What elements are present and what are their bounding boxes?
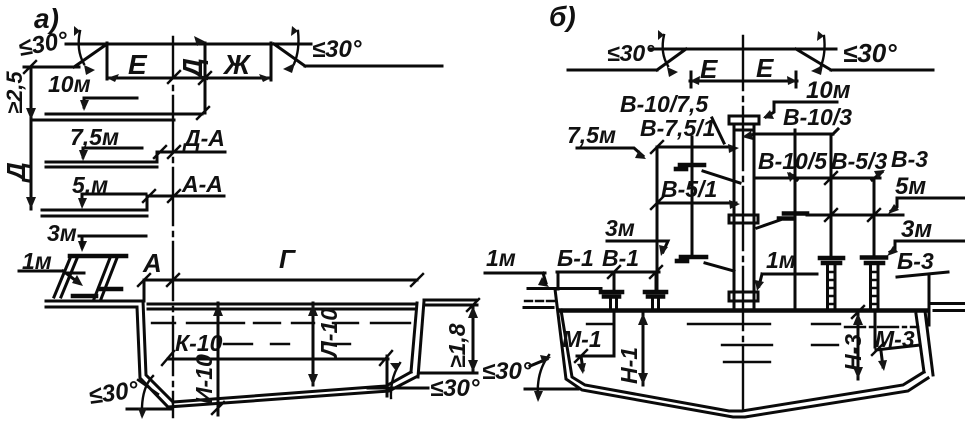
platform mid step: [677, 259, 687, 264]
arrow V-10/3: [742, 131, 753, 140]
arrow at 2.5 bottom: [26, 108, 36, 120]
pipe1 shaft: [611, 298, 617, 311]
dim 1.8 bottom arrow: [468, 360, 478, 372]
svg-text:1м: 1м: [766, 247, 796, 273]
platform mid leader: [705, 263, 734, 271]
leader 7.5m: [577, 148, 643, 156]
left dim vertical: [30, 67, 33, 209]
level line 10m upper: [46, 113, 202, 116]
chute lower platform 1: [101, 287, 121, 292]
svg-text:Ж: Ж: [222, 49, 252, 80]
svg-text:7,5м: 7,5м: [70, 124, 119, 150]
right ground: [831, 69, 933, 72]
left ground line: [24, 66, 79, 69]
angle bottom-left baseline: [127, 408, 171, 411]
svg-text:≥2,5: ≥2,5: [2, 71, 27, 114]
svg-text:В-10/7,5: В-10/7,5: [620, 91, 709, 117]
svg-text:В-10/3: В-10/3: [783, 104, 852, 130]
arc right top arrow: [817, 31, 824, 41]
vertical x874: [873, 178, 876, 255]
centerline axis B: [742, 36, 744, 410]
level line 7.5 lower: [46, 166, 157, 169]
leader 3m left: [607, 241, 668, 252]
N-3 top tick: [852, 306, 864, 318]
dash row 3: [724, 361, 770, 363]
platform right leader: [757, 220, 780, 228]
svg-text:≤30°: ≤30°: [843, 38, 897, 68]
M-1 tick: [575, 350, 587, 362]
pipe2 shaft: [653, 298, 659, 311]
leader 7.5m: [83, 148, 142, 157]
pipe3 cap bottom: [823, 261, 840, 266]
svg-text:А: А: [142, 248, 162, 278]
dash-dot through M-3: [845, 326, 918, 328]
L-10 bottom arrow: [308, 374, 318, 386]
chute lower platform 2: [73, 294, 96, 299]
angle arc left: [79, 31, 84, 64]
K-10 line: [168, 358, 388, 361]
leader slash V-10/7.5: [712, 118, 724, 143]
arrow 7.5m: [79, 150, 88, 161]
leader B-3: [897, 272, 948, 277]
svg-text:Б-1: Б-1: [557, 245, 594, 271]
leader 3m right: [890, 241, 965, 252]
ground line left upper: [46, 300, 143, 303]
chute left diagonal outer: [54, 256, 71, 297]
svg-text:≤30°: ≤30°: [482, 358, 532, 385]
platform mid on axis line: [681, 255, 706, 260]
angle arc left: [663, 35, 668, 66]
leader 1m left: [485, 272, 545, 275]
G tick center: [167, 274, 179, 286]
angle arc right: [294, 31, 299, 64]
right berm top upper: [424, 299, 477, 302]
L-10 top arrow: [308, 304, 318, 316]
svg-text:Д: Д: [1, 162, 31, 183]
arrow to V-10/5: [790, 174, 797, 180]
N-1 bottom arrow: [638, 373, 648, 385]
svg-text:1м: 1м: [486, 245, 516, 271]
level line 5 lower: [42, 215, 147, 218]
column cap: [729, 116, 759, 124]
I-10 vertical: [217, 303, 220, 415]
svg-text:≤30°: ≤30°: [607, 40, 655, 66]
leader 5m: [82, 194, 146, 204]
berm top line: [66, 43, 311, 46]
ground line left lower: [46, 306, 137, 309]
pipe3 shaft hatch: [828, 272, 835, 304]
svg-text:5.м: 5.м: [72, 172, 108, 198]
svg-text:Д-А: Д-А: [182, 125, 225, 151]
svg-text:А-А: А-А: [181, 171, 223, 197]
pipe4 axis extension: [874, 311, 877, 347]
dim 1.8 top arrow: [468, 306, 478, 318]
svg-text:7,5м: 7,5м: [567, 122, 616, 148]
left ground ledge: [528, 287, 601, 290]
svg-text:И-10: И-10: [191, 354, 217, 404]
V-10/3 hook: [833, 129, 838, 134]
step 5: [146, 196, 149, 210]
tick D-A center: [168, 146, 180, 158]
tick 5m at x831: [825, 209, 837, 221]
vertical x795: [794, 130, 797, 309]
arrow 3m right: [887, 246, 898, 256]
svg-text:Е: Е: [128, 49, 148, 80]
tick V-5/1 left: [651, 197, 663, 209]
K-10 tick left: [162, 351, 174, 365]
angle bottom-right arrow: [390, 363, 400, 371]
arc left top arrow: [74, 26, 80, 36]
left ground lower: [524, 306, 553, 309]
tick at pipe1: [608, 266, 620, 278]
tick at 10m line right: [197, 107, 209, 119]
pipe2 cap bottom: [648, 294, 663, 299]
G tick left: [138, 274, 150, 286]
left ground dashed: [525, 300, 554, 302]
M-3 arrow stem: [881, 351, 883, 367]
pipe2 cap top: [645, 290, 666, 295]
dim tick center: [168, 71, 180, 83]
E arrow right: [787, 76, 797, 85]
right berm upper: [931, 302, 965, 305]
svg-text:Н-3: Н-3: [840, 334, 866, 371]
arc left top arrow: [658, 30, 664, 40]
svg-text:3м: 3м: [605, 215, 635, 241]
arc left bottom arrow: [667, 67, 678, 77]
line D-A: [157, 151, 225, 154]
basin rim thick: [560, 308, 927, 313]
svg-text:≥1,8: ≥1,8: [444, 323, 470, 368]
vertical x831: [830, 134, 833, 256]
leader 10m: [766, 102, 837, 117]
dash row 1: [152, 322, 410, 324]
svg-text:5м: 5м: [895, 173, 926, 200]
svg-text:3м: 3м: [47, 220, 77, 246]
basin right wall outer: [925, 311, 933, 375]
svg-text:≤30°: ≤30°: [430, 375, 480, 402]
tick ground left: [24, 61, 36, 73]
pipe4 cap bottom: [866, 261, 883, 266]
svg-text:В-3: В-3: [891, 146, 928, 172]
pipe4 cap top: [862, 255, 886, 260]
dim arrow left: [107, 74, 119, 82]
tick at pipe2: [650, 266, 662, 278]
column shaft left: [733, 124, 736, 309]
basin left wall outer: [137, 307, 168, 407]
water line upper: [148, 303, 414, 306]
angle bottom-left tick: [138, 380, 158, 394]
leader V-10/3: [747, 134, 833, 136]
arc right bottom arrow: [811, 65, 823, 75]
tick A-A center: [168, 190, 180, 202]
angle bottom-right arc: [391, 363, 400, 398]
arrow 1m mid: [755, 280, 764, 291]
dash row 2: [224, 343, 350, 345]
svg-text:Г: Г: [279, 244, 296, 274]
chute right diagonal inner: [101, 258, 117, 299]
dim tick at 205: [199, 72, 211, 84]
svg-text:10м: 10м: [48, 71, 91, 97]
I-10 top arrow: [213, 304, 223, 316]
pipe4 shaft hatch: [871, 272, 878, 304]
leader 1m diag: [543, 273, 546, 283]
N-3 top arrow: [853, 313, 863, 325]
basin left wall outer: [555, 289, 928, 417]
arrow 10m: [763, 110, 774, 119]
E tick left: [690, 72, 693, 87]
tick D right: [204, 43, 207, 113]
line A-A: [147, 195, 224, 198]
right slope: [274, 44, 305, 66]
tick line10/5: [825, 172, 837, 184]
dash row 1: [587, 323, 840, 325]
svg-text:В-10/5: В-10/5: [758, 148, 828, 174]
arrow 1m left: [538, 277, 549, 287]
right berm top lower: [424, 304, 477, 307]
svg-text:В-5/1: В-5/1: [661, 176, 717, 202]
arc right top arrow: [291, 26, 298, 36]
level line 7.5 upper: [46, 161, 157, 164]
basin left wall inner: [143, 301, 173, 402]
angle bottom-left arc: [538, 355, 549, 398]
tick left end vertical: [557, 272, 560, 289]
angle bottom-right baseline: [368, 387, 428, 390]
basin right wall outer: [418, 301, 424, 377]
right slope: [796, 49, 831, 70]
arrow 5m: [888, 204, 899, 214]
arrow 10m down: [80, 100, 89, 111]
pipe2 axis upper: [655, 272, 658, 290]
tick Zh right: [270, 43, 273, 80]
pipe4 shaft: [871, 265, 879, 309]
E tick right: [795, 72, 798, 87]
line 5m level: [807, 214, 903, 217]
N-3 vertical: [857, 312, 860, 379]
svg-text:В-5/3: В-5/3: [831, 148, 887, 174]
tick 5m at x874: [868, 209, 880, 221]
column shaft right: [753, 124, 756, 309]
line V-5/1: [657, 202, 736, 205]
angle arc right: [821, 36, 825, 66]
leader 1m mid: [759, 274, 817, 286]
arrow at D bottom: [26, 197, 36, 209]
angle arc bottom arrow: [534, 391, 543, 402]
svg-text:Е: Е: [756, 53, 774, 83]
L-10 vertical: [312, 303, 315, 385]
left ground: [568, 69, 657, 72]
arc left bottom arrow: [84, 65, 95, 75]
arrow 1m: [72, 275, 83, 286]
chute left diagonal inner: [61, 256, 78, 297]
water line lower: [148, 308, 414, 311]
right ground lower line: [421, 372, 477, 375]
svg-text:1м: 1м: [22, 248, 52, 274]
right ground line: [305, 65, 442, 68]
left slope: [657, 49, 686, 70]
svg-text:Л-10: Л-10: [316, 308, 342, 359]
line level 10/5: [754, 177, 880, 180]
leader 3m: [79, 235, 146, 238]
pipe1 axis upper: [613, 272, 616, 290]
M-3 bracket: [876, 345, 920, 350]
left slope: [74, 44, 107, 67]
basin bottom inner: [173, 372, 411, 402]
step 7.5: [156, 152, 159, 162]
tick A-A left: [143, 190, 155, 202]
dim line E-D-Zh: [107, 77, 271, 80]
column mid flange: [729, 215, 758, 223]
tick E left: [106, 43, 109, 79]
basin left wall inner: [561, 310, 924, 411]
angle bottom-left arc: [142, 376, 153, 415]
chute mid step: [64, 272, 84, 275]
leader 10m: [84, 98, 137, 107]
I-10 bottom tick: [212, 402, 224, 414]
column collar: [734, 129, 754, 132]
arrow 3m: [78, 241, 87, 252]
arrow to V-3: [872, 172, 882, 180]
angle arc top arrow: [530, 359, 547, 366]
angle bottom-left baseline: [525, 388, 578, 391]
tick D-A left: [154, 146, 166, 158]
dash row 2: [722, 344, 838, 346]
level line 10m lower: [31, 119, 174, 122]
angle bottom-right vertical tick: [386, 356, 389, 396]
arrow on top line: [194, 36, 206, 46]
svg-text:≤30°: ≤30°: [312, 36, 362, 63]
basin right wall inner: [916, 314, 924, 372]
berm top line: [650, 48, 836, 51]
arc right bottom arrow: [283, 63, 295, 73]
centerline axis A: [172, 37, 174, 417]
M-1 bracket: [577, 311, 614, 356]
arrow 7.5m: [635, 150, 646, 159]
column bottom flange: [729, 292, 758, 301]
vertical left dim: [656, 147, 659, 290]
angle bottom-left arrow: [138, 408, 147, 419]
platform upper leader: [703, 171, 740, 183]
label line B1-V1: [557, 271, 659, 274]
pipe1 cap top: [601, 290, 622, 295]
basin bottom outer: [168, 377, 416, 407]
tick 7.5 left: [651, 141, 663, 153]
svg-text:М-1: М-1: [562, 326, 602, 352]
M-1 arrow stem: [581, 356, 583, 370]
pipe3 shaft: [828, 265, 836, 309]
chute top bar: [70, 254, 126, 259]
B-3 tick vertical: [928, 276, 931, 325]
dim line E-E: [690, 80, 797, 83]
dim arrow right: [259, 74, 271, 82]
G tick right: [411, 274, 423, 286]
leader 5m: [891, 198, 965, 211]
M-3 arrow: [878, 360, 887, 371]
svg-text:К-10: К-10: [175, 330, 223, 356]
svg-text:3м: 3м: [901, 216, 932, 243]
K-10 tick right: [380, 351, 392, 365]
right berm lower: [934, 309, 965, 312]
svg-text:10м: 10м: [806, 77, 851, 104]
arrow 3m left: [659, 245, 668, 256]
svg-text:Н-1: Н-1: [616, 347, 642, 384]
svg-text:б): б): [549, 1, 576, 32]
arrow V-5/1 right: [729, 200, 740, 209]
chute right diagonal outer: [94, 258, 110, 299]
pipe1 cap bottom: [604, 294, 619, 299]
pipe3 cap top: [820, 256, 843, 261]
M-3 tick: [872, 343, 884, 355]
arrow 7.5 right: [728, 144, 739, 153]
platform right bar: [784, 211, 807, 216]
svg-text:В-7,5/1: В-7,5/1: [640, 115, 715, 141]
dim line G: [144, 279, 417, 282]
svg-text:Б-3: Б-3: [897, 248, 934, 274]
N-1 top arrow: [638, 313, 648, 325]
E arrow left: [690, 76, 700, 85]
M-1 arrow: [577, 363, 586, 374]
arrow 5m: [78, 198, 87, 209]
G left vertical: [143, 280, 146, 301]
N-1 vertical: [642, 312, 645, 385]
platform upper on V-7.5 line: [680, 163, 704, 168]
level line 5 upper: [42, 209, 147, 212]
platform upper step: [676, 167, 686, 172]
leader 1m: [19, 271, 79, 283]
vertical V-7.5/1: [691, 137, 694, 255]
line 7.5 level: [657, 146, 734, 149]
basin right wall inner: [411, 303, 417, 372]
dim 1.8 vertical: [472, 305, 475, 373]
dim 1.8 top tick: [467, 299, 479, 311]
N-3 bottom arrow: [853, 367, 863, 379]
svg-text:Д: Д: [177, 58, 208, 80]
platform right step: [779, 216, 793, 221]
arrow 3m stem: [81, 236, 84, 247]
